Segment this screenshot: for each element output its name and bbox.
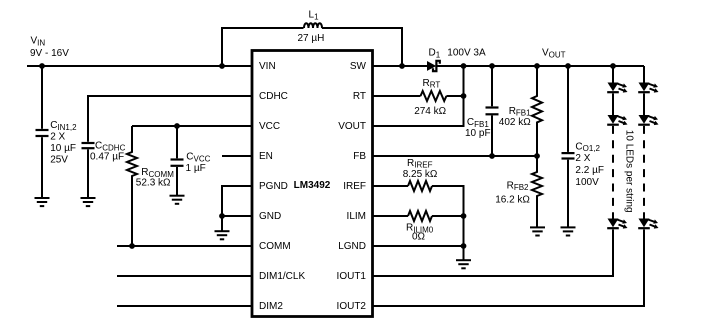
svg-text:LGND: LGND xyxy=(338,241,366,252)
wire CDHC xyxy=(88,96,252,142)
wire GND xyxy=(222,215,252,217)
node junction dot RFB1 top xyxy=(534,63,540,69)
ground (CIN1,2) xyxy=(35,198,50,206)
svg-text:0.47 µF: 0.47 µF xyxy=(90,151,124,162)
wire LGND xyxy=(373,245,464,247)
svg-text:100V 3A: 100V 3A xyxy=(447,48,486,59)
svg-text:10 µF: 10 µF xyxy=(50,143,76,154)
wire between LEDs string 2 xyxy=(643,93,645,115)
node junction dot SW/L1 xyxy=(399,63,405,69)
svg-text:2.2 µF: 2.2 µF xyxy=(575,165,604,176)
IC U1 LM3492 xyxy=(252,51,373,317)
resistor RCOMM xyxy=(127,126,174,246)
node junction dot CO tap xyxy=(565,63,571,69)
svg-text:DIM1/CLK: DIM1/CLK xyxy=(259,271,305,282)
resistor RFB1 xyxy=(499,66,542,156)
wire IREF pin to resistor xyxy=(373,185,409,187)
svg-text:EN: EN xyxy=(259,151,273,162)
resistor RFB2 xyxy=(495,156,542,227)
svg-text:10 LEDs per string: 10 LEDs per string xyxy=(624,130,635,213)
svg-text:IOUT1: IOUT1 xyxy=(337,271,367,282)
capacitor CFB1 xyxy=(465,66,499,156)
wire dashed (more LEDs) string 2 xyxy=(643,126,645,219)
wire RIREF to shared vertical xyxy=(432,186,464,246)
wire IOUT2 to LED string 2 xyxy=(373,230,645,307)
LED D-B1 string2 top xyxy=(638,83,658,93)
wire FB xyxy=(373,155,538,157)
node junction dot RCOMM/COMM xyxy=(129,243,135,249)
svg-text:9V - 16V: 9V - 16V xyxy=(30,48,69,59)
ground (PGND/GND) xyxy=(215,216,230,239)
node junction dot LGND xyxy=(461,243,467,249)
svg-text:27 µH: 27 µH xyxy=(298,33,325,44)
svg-text:IREF: IREF xyxy=(343,181,366,192)
svg-text:GND: GND xyxy=(259,211,281,222)
svg-text:2 X: 2 X xyxy=(575,153,590,164)
wire EN stub xyxy=(222,155,252,157)
node junction dot RRT/VOUT-pin vertical xyxy=(461,93,467,99)
svg-text:LM3492: LM3492 xyxy=(294,180,331,191)
wire RT pin to resistor xyxy=(373,95,421,97)
node junction dot FB/RFB1/RFB2 xyxy=(534,153,540,159)
ground (CO1,2) xyxy=(561,227,576,235)
wire between LEDs string 1 xyxy=(612,93,614,115)
LED D-B10 string2 bottom xyxy=(638,219,658,229)
svg-text:10 pF: 10 pF xyxy=(465,128,491,139)
svg-text:1 µF: 1 µF xyxy=(186,163,206,174)
svg-text:8.25 kΩ: 8.25 kΩ xyxy=(403,169,438,180)
wire SW to diode xyxy=(373,65,428,67)
wire L1 loop left/top/right xyxy=(222,28,402,66)
svg-text:0Ω: 0Ω xyxy=(412,232,426,243)
svg-text:16.2 kΩ: 16.2 kΩ xyxy=(495,194,530,205)
svg-text:VOUT: VOUT xyxy=(338,121,366,132)
capacitor CCDHC xyxy=(82,141,126,198)
wire LED string 1 top xyxy=(612,66,614,83)
ground (CVCC) xyxy=(170,196,185,204)
svg-text:RT: RT xyxy=(353,91,366,102)
resistor RRT xyxy=(414,78,463,117)
capacitor CVCC xyxy=(171,126,211,195)
wire dashed (more LEDs) string 1 xyxy=(612,126,614,219)
ground (RFB2) xyxy=(530,227,545,235)
node junction dot RILIM0 xyxy=(461,213,467,219)
wire PGND to ground rail xyxy=(222,186,252,216)
node junction dot CVCC tap xyxy=(174,123,180,129)
svg-text:PGND: PGND xyxy=(259,181,288,192)
node junction dot D1 output / RT branch xyxy=(461,63,467,69)
svg-text:274 kΩ: 274 kΩ xyxy=(414,106,446,117)
wire ILIM pin to resistor xyxy=(373,215,409,217)
wire LED string 2 top xyxy=(643,66,645,83)
ground (CCDHC) xyxy=(81,198,96,206)
node junction dot PGND/GND xyxy=(219,213,225,219)
svg-text:COMM: COMM xyxy=(259,241,291,252)
resistor RIREF xyxy=(403,158,438,191)
LED D-A2 string1 second xyxy=(607,115,627,125)
capacitor CIN1,2 xyxy=(36,66,78,198)
ground (LGND) xyxy=(456,246,471,268)
node junction dot CFB1 bottom xyxy=(489,153,495,159)
svg-text:DIM2: DIM2 xyxy=(259,301,283,312)
LED D-A1 string1 top xyxy=(607,83,627,93)
LED D-A10 string1 bottom xyxy=(607,219,627,229)
wire IOUT1 to LED string 1 xyxy=(373,230,614,277)
svg-text:402 kΩ: 402 kΩ xyxy=(499,117,531,128)
svg-text:CDHC: CDHC xyxy=(259,91,288,102)
wire diode cathode to VOUT rail xyxy=(438,65,645,67)
svg-text:SW: SW xyxy=(350,61,367,72)
inductor L1 xyxy=(298,10,325,45)
svg-text:IOUT2: IOUT2 xyxy=(337,301,367,312)
svg-text:25V: 25V xyxy=(50,155,68,166)
svg-text:52.3 kΩ: 52.3 kΩ xyxy=(136,178,171,189)
capacitor CO1,2 xyxy=(562,66,604,227)
wire VIN input rail xyxy=(27,65,252,67)
wire VOUT pin up to D1 output node xyxy=(373,66,464,126)
node junction dot CIN tap xyxy=(39,63,45,69)
wire COMM xyxy=(117,245,252,247)
node junction dot CFB1 top xyxy=(489,63,495,69)
svg-text:FB: FB xyxy=(353,151,366,162)
node junction dot string 1 tap xyxy=(610,63,616,69)
wire DIM1/CLK xyxy=(117,275,252,277)
svg-text:VCC: VCC xyxy=(259,121,280,132)
LED D-B2 string2 second xyxy=(638,115,658,125)
svg-text:2 X: 2 X xyxy=(50,132,65,143)
node VIN label xyxy=(30,36,69,60)
svg-text:VIN: VIN xyxy=(259,61,276,72)
diode D1 schottky xyxy=(427,48,486,72)
wire DIM2 xyxy=(117,305,252,307)
wire VCC xyxy=(132,125,252,127)
svg-text:ILIM: ILIM xyxy=(347,211,366,222)
svg-text:100V: 100V xyxy=(575,177,599,188)
node junction dot L1 left tap xyxy=(219,63,225,69)
resistor RILIM0 xyxy=(406,211,464,243)
